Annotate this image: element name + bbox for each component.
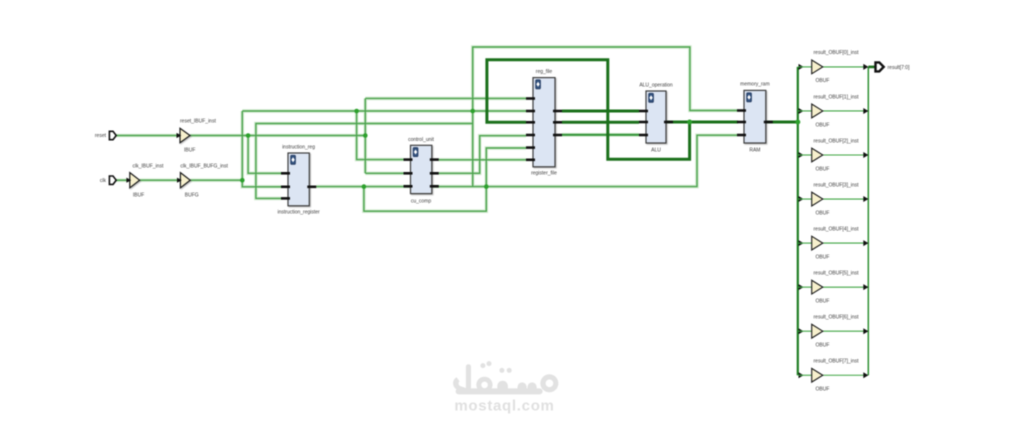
svg-text:OBUF: OBUF xyxy=(816,299,830,305)
svg-text:clk_IBUF_inst: clk_IBUF_inst xyxy=(133,164,164,170)
svg-text:memory_ram: memory_ram xyxy=(740,82,769,88)
svg-text:ALU_operation: ALU_operation xyxy=(639,83,673,89)
svg-text:OBUF: OBUF xyxy=(816,254,830,260)
svg-text:OBUF: OBUF xyxy=(816,210,830,216)
svg-text:IBUF: IBUF xyxy=(184,148,195,154)
svg-text:result_OBUF[3]_inst: result_OBUF[3]_inst xyxy=(814,182,860,188)
svg-text:OBUF: OBUF xyxy=(816,166,830,172)
svg-text:result_OBUF[5]_inst: result_OBUF[5]_inst xyxy=(814,271,860,277)
svg-text:OBUF: OBUF xyxy=(816,78,830,84)
svg-text:reset_IBUF_inst: reset_IBUF_inst xyxy=(180,119,216,125)
svg-text:reset: reset xyxy=(95,133,107,139)
svg-text:BUFG: BUFG xyxy=(185,192,199,198)
svg-text:OBUF: OBUF xyxy=(816,387,830,393)
svg-text:OBUF: OBUF xyxy=(816,343,830,349)
svg-text:result_OBUF[4]_inst: result_OBUF[4]_inst xyxy=(814,226,860,232)
svg-text:control_unit: control_unit xyxy=(408,137,434,143)
svg-text:result_OBUF[7]_inst: result_OBUF[7]_inst xyxy=(814,359,860,365)
svg-text:result_OBUF[0]_inst: result_OBUF[0]_inst xyxy=(814,50,860,56)
svg-text:reg_file: reg_file xyxy=(536,69,553,75)
svg-text:result_OBUF[2]_inst: result_OBUF[2]_inst xyxy=(814,138,860,144)
svg-text:clk: clk xyxy=(100,178,107,184)
svg-text:IBUF: IBUF xyxy=(133,192,144,198)
svg-text:result[7:0]: result[7:0] xyxy=(888,65,911,71)
svg-text:RAM: RAM xyxy=(749,147,760,153)
svg-text:result_OBUF[1]_inst: result_OBUF[1]_inst xyxy=(814,94,860,100)
svg-text:cu_comp: cu_comp xyxy=(411,198,432,204)
svg-text:instruction_reg: instruction_reg xyxy=(282,145,315,151)
svg-text:OBUF: OBUF xyxy=(816,122,830,128)
svg-text:register_file: register_file xyxy=(531,171,557,177)
svg-text:mostaql.com: mostaql.com xyxy=(454,398,554,415)
svg-text:ALU: ALU xyxy=(651,147,661,153)
svg-text:clk_IBUF_BUFG_inst: clk_IBUF_BUFG_inst xyxy=(180,164,228,170)
svg-text:instruction_register: instruction_register xyxy=(277,209,320,215)
svg-text:result_OBUF[6]_inst: result_OBUF[6]_inst xyxy=(814,315,860,321)
